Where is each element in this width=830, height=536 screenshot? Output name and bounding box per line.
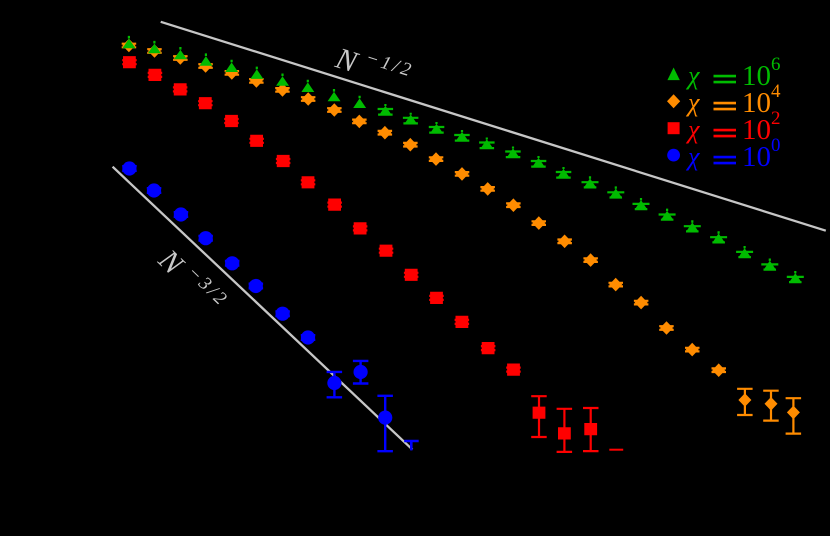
label N^-3/2 [151, 241, 232, 321]
green series markers [122, 39, 801, 283]
svg-text:2: 2 [771, 108, 781, 129]
svg-text:χ: χ [685, 142, 700, 171]
blue series errorbars [122, 166, 393, 451]
guide line N^-3/2 [113, 167, 413, 450]
red series errorbars [122, 60, 598, 452]
blue stray cap T [404, 441, 419, 450]
svg-text:6: 6 [771, 54, 781, 75]
svg-text:4: 4 [771, 81, 781, 102]
svg-text:0: 0 [771, 135, 781, 156]
svg-text:χ: χ [685, 61, 700, 90]
legend [667, 54, 781, 173]
red series markers [123, 56, 597, 439]
orange series markers [122, 39, 800, 419]
guide line N^-1/2 [161, 22, 826, 231]
svg-text:χ: χ [685, 88, 700, 117]
svg-text:10: 10 [742, 141, 771, 173]
blue series markers [122, 161, 392, 424]
label N^-1/2 [331, 39, 416, 97]
green series errorbars [129, 36, 804, 282]
svg-text:χ: χ [685, 115, 700, 144]
orange series errorbars [122, 44, 801, 434]
red stray cap [609, 449, 623, 451]
